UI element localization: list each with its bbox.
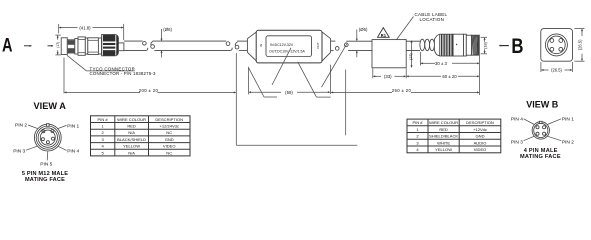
svg-text:RED: RED [439, 127, 448, 132]
connector B body [420, 34, 479, 56]
svg-text:60 ± 20: 60 ± 20 [442, 74, 457, 79]
svg-text:PIN #: PIN # [412, 120, 423, 125]
svg-text:GND: GND [476, 134, 485, 139]
svg-text:PIN 2: PIN 2 [15, 123, 27, 129]
svg-text:N/A: N/A [128, 130, 135, 135]
view A connector face [34, 124, 61, 151]
svg-text:(Ø6): (Ø6) [359, 27, 368, 32]
end view square (connector B rear) [541, 29, 573, 62]
svg-text:SHIELD/BLACK: SHIELD/BLACK [429, 134, 458, 139]
svg-text:VIEW B: VIEW B [526, 99, 559, 109]
svg-text:(26.5): (26.5) [551, 68, 562, 73]
cable segment 2 [151, 41, 232, 50]
svg-text:DESCRIPTION: DESCRIPTION [466, 120, 494, 125]
svg-text:MATING FACE: MATING FACE [520, 154, 561, 160]
dimension (26.5) bottom [541, 62, 573, 73]
svg-text:(59): (59) [285, 90, 293, 95]
svg-text:PIN 1: PIN 1 [67, 123, 79, 129]
dimension 60±20 [407, 74, 479, 79]
dimension 200±20 [64, 53, 236, 145]
svg-text:PIN 5: PIN 5 [40, 162, 52, 168]
svg-text:PIN #: PIN # [98, 117, 109, 122]
converter box left strain relief [247, 32, 256, 61]
svg-text:CONNECTOR - P/N 1838275-3: CONNECTOR - P/N 1838275-3 [90, 71, 157, 76]
cable label [372, 40, 406, 68]
cable segment 1 [124, 41, 148, 50]
svg-text:NC: NC [166, 130, 172, 135]
dimension (Ø6) right [357, 27, 368, 57]
cable segment 4 [344, 41, 420, 50]
dimension 250±20 [331, 70, 479, 136]
view B connector face [532, 121, 549, 139]
view B caption [520, 148, 561, 160]
warning triangle R1 [378, 28, 390, 38]
svg-text:R1: R1 [381, 33, 387, 38]
svg-text:(17): (17) [56, 42, 60, 48]
svg-text:YELLOW: YELLOW [435, 147, 452, 152]
svg-text:WHITE: WHITE [437, 140, 450, 145]
svg-text:AUDIO: AUDIO [474, 140, 487, 145]
svg-text:LOCATION: LOCATION [420, 17, 445, 22]
svg-text:BLACK/SHIELD: BLACK/SHIELD [117, 137, 146, 142]
svg-text:(Ø6): (Ø6) [163, 27, 172, 32]
table B [407, 119, 501, 153]
svg-text:OUT: OUT [316, 42, 320, 48]
svg-text:MATING FACE: MATING FACE [25, 177, 65, 183]
connector A body [61, 35, 124, 56]
converter box U1 [256, 30, 322, 63]
dimension (26.5) right [574, 29, 584, 62]
svg-text:WIRE COLOUR: WIRE COLOUR [117, 117, 146, 122]
svg-text:(26.5): (26.5) [578, 39, 583, 50]
view A pin labels [13, 123, 79, 168]
datum lines below drawing [236, 144, 357, 146]
svg-text:IN:DC12V-32V: IN:DC12V-32V [270, 43, 294, 47]
dimension (18) [481, 37, 488, 54]
svg-text:A: A [2, 34, 13, 56]
extension line at connector B face [479, 35, 481, 95]
dimension (33) [373, 69, 406, 80]
svg-text:200 ± 20: 200 ± 20 [139, 88, 159, 93]
svg-text:(41.8): (41.8) [79, 25, 91, 30]
dimension (Ø6) left [162, 27, 173, 58]
svg-text:RED: RED [127, 124, 136, 129]
dimension 30±3 [420, 52, 479, 66]
svg-text:250 ± 20: 250 ± 20 [392, 88, 412, 93]
svg-text:PIN 1: PIN 1 [562, 117, 574, 123]
svg-text:NC: NC [166, 150, 172, 155]
view A caption [22, 171, 68, 183]
svg-text:N/A: N/A [128, 150, 135, 155]
svg-text:(23): (23) [408, 52, 413, 60]
leader lines under converter box [249, 44, 347, 97]
cable segment 3 [235, 41, 247, 50]
label A [2, 34, 53, 56]
svg-text:PIN 4: PIN 4 [511, 117, 523, 123]
svg-text:VIDEO: VIDEO [163, 144, 176, 149]
svg-text:VIDEO: VIDEO [474, 147, 487, 152]
svg-text:(18): (18) [483, 41, 488, 49]
svg-text:GND: GND [165, 137, 174, 142]
view B pin labels [511, 117, 574, 146]
svg-text:(33): (33) [384, 74, 392, 79]
svg-text:OUT:DC10V~12V/1.5A: OUT:DC10V~12V/1.5A [269, 50, 305, 54]
svg-text:YELLOW: YELLOW [123, 144, 140, 149]
svg-text:30 ± 3: 30 ± 3 [435, 61, 448, 66]
dimension (41.8) [59, 24, 124, 40]
svg-text:PIN 2: PIN 2 [562, 140, 574, 146]
svg-text:DESCRIPTION: DESCRIPTION [155, 117, 183, 122]
converter box right strain relief [322, 32, 331, 61]
label B [499, 35, 523, 58]
svg-text:PIN 3: PIN 3 [511, 140, 523, 146]
cable stub right of box [331, 41, 339, 50]
dimension (59) [249, 65, 331, 95]
svg-text:PIN 3: PIN 3 [13, 149, 25, 155]
svg-text:WIRE COLOUR: WIRE COLOUR [429, 120, 458, 125]
svg-text:+12Vdc: +12Vdc [473, 127, 487, 132]
dimension (23) [408, 41, 413, 68]
cable label callout [397, 12, 448, 39]
svg-text:VIEW A: VIEW A [34, 101, 67, 111]
svg-text:PIN 4: PIN 4 [67, 149, 79, 155]
svg-text:B: B [511, 35, 523, 58]
svg-text:IN: IN [259, 44, 263, 47]
dimension (17) [55, 35, 60, 55]
table A [91, 116, 191, 156]
TYCO connector callout [67, 55, 156, 76]
svg-text:+12/24Vdc: +12/24Vdc [159, 124, 178, 129]
